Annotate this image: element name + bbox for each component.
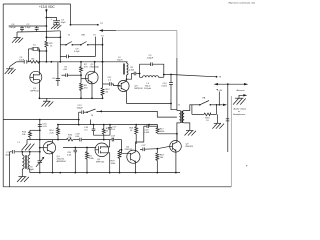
- svg-text:.47µF: .47µF: [19, 59, 25, 61]
- wire vertical switch feed: [59, 31, 61, 62]
- stub bias row: [90, 120, 92, 125]
- transistor Q2: [81, 62, 99, 99]
- wire Q3 source down to step wire: [127, 104, 177, 110]
- wire antenna feed line with left arrowhead: [99, 29, 177, 110]
- capacitor C6 electrolytic: [52, 62, 60, 86]
- wire sub bus: [94, 135, 111, 139]
- svg-text:+13.8 VDC: +13.8 VDC: [39, 5, 55, 9]
- capacitor C3 electrolytic: [51, 18, 67, 25]
- resistor R17: [86, 148, 95, 173]
- wire tank feed: [126, 74, 134, 80]
- node +13.8 VDC supply label: [39, 5, 55, 9]
- node +9V stub: [216, 89, 223, 105]
- wire supply drop with arrowhead: [45, 9, 47, 38]
- wire bypass caps rail: [9, 25, 47, 27]
- switch S1 PA row: [190, 96, 223, 105]
- page header url text: [229, 2, 257, 5]
- svg-text:.047µF: .047µF: [9, 27, 17, 29]
- svg-text:40pF: 40pF: [5, 154, 11, 156]
- resistor R12: [101, 84, 110, 98]
- capacitor C5: [19, 57, 27, 64]
- capacitor C14: [162, 75, 174, 105]
- svg-text:0.001: 0.001: [129, 70, 135, 72]
- audio output text: [233, 108, 247, 116]
- wire Q3 gate feed: [112, 84, 121, 86]
- wire feedback box top with switches: [60, 44, 95, 46]
- capacitor C21 inline on rail: [110, 135, 122, 141]
- svg-text:3.3µF: 3.3µF: [25, 27, 31, 29]
- wire Q6 collector node: [158, 133, 178, 135]
- node B+ takeoff dot: [70, 24, 72, 26]
- antenna double arrow: [214, 83, 249, 92]
- wire crystal right leg: [39, 49, 41, 62]
- wire antenna drop left: [9, 152, 11, 187]
- bias row wire: [57, 124, 158, 126]
- border frame top-box right side: [70, 4, 72, 25]
- svg-text:100pF: 100pF: [77, 108, 84, 110]
- svg-text:2N2222: 2N2222: [125, 149, 133, 151]
- node +9V joins S1 wire: [216, 104, 220, 106]
- resistor R8: [80, 79, 89, 99]
- wire crystal left leg: [27, 49, 29, 62]
- wire Q2 base feed: [62, 74, 82, 76]
- wire coupling down to Q5b base: [121, 140, 127, 154]
- capacitor C18: [144, 124, 158, 133]
- transformer T1: [177, 105, 190, 143]
- wire Q5b collector loop: [136, 126, 144, 150]
- headphone output arrow: [239, 94, 247, 99]
- wire right bus: [227, 83, 229, 152]
- resistor R6: [30, 58, 39, 63]
- svg-text:18.5µH: 18.5µH: [144, 88, 152, 90]
- transistor Q6 PA: [170, 134, 194, 173]
- capacitor C7: [63, 67, 68, 78]
- svg-text:10µF: 10µF: [61, 22, 67, 24]
- svg-text:A2N3904: A2N3904: [57, 160, 67, 163]
- ground below T1: [5, 69, 16, 74]
- wire caps bottom bus: [17, 31, 60, 38]
- transistor Q1: [30, 62, 42, 93]
- svg-text:Headphones: Headphones: [233, 114, 246, 116]
- transistor Q5 mosfet: [95, 140, 110, 173]
- svg-text:MPF102: MPF102: [135, 88, 144, 90]
- wire antenna input row: [10, 151, 41, 153]
- wire Q5 gate feed: [63, 147, 96, 149]
- wire oscillator rail: [16, 61, 127, 63]
- svg-text:MPF102: MPF102: [96, 161, 105, 163]
- ground below T1 secondary: [185, 131, 197, 136]
- ground below R20 branch: [212, 114, 224, 128]
- ground bus mid: [39, 97, 104, 99]
- capacitor C4: [9, 24, 24, 32]
- arrow S1 to bus: [223, 104, 227, 106]
- svg-text:My hams schematic site: My hams schematic site: [229, 2, 257, 5]
- resistor R7: [80, 62, 89, 79]
- resistor R15: [102, 125, 110, 136]
- inductor L2 tank bottom: [140, 76, 164, 91]
- node junction supply to R9: [46, 36, 48, 38]
- wire to T5 node: [171, 75, 222, 79]
- resistor R20 parallel branch: [192, 105, 217, 122]
- ground stem below bus: [42, 98, 54, 106]
- switch CR1: [80, 35, 89, 46]
- capacitor C11 tank top: [140, 55, 164, 78]
- wire B+ feed: [71, 23, 104, 25]
- capacitor C10: [103, 77, 113, 86]
- capacitor C17: [84, 125, 95, 136]
- capacitor C2: [25, 24, 39, 31]
- coil L3 vertical: [117, 57, 128, 78]
- wire audio drive row: [140, 145, 170, 151]
- ground top right: [233, 98, 246, 104]
- wire tank to C14 node: [164, 74, 172, 76]
- svg-text:MPF102: MPF102: [31, 91, 40, 93]
- resistor R14: [50, 125, 60, 140]
- speck right: [246, 165, 247, 166]
- capacitor C15 on vertical: [38, 123, 48, 128]
- svg-text:0.1µF: 0.1µF: [74, 51, 80, 53]
- svg-text:Audio Output: Audio Output: [234, 108, 247, 111]
- ground bus bottom: [30, 172, 180, 174]
- wire to C3: [46, 18, 56, 21]
- switch T2: [65, 35, 73, 46]
- border frame top: [3, 3, 70, 5]
- node junction R9 bottom: [46, 50, 48, 52]
- resistor R21 rf gain: [130, 125, 138, 144]
- resistor R9: [45, 37, 53, 51]
- resistor R16 inline: [67, 134, 73, 141]
- node junction supply to C3: [46, 17, 48, 19]
- svg-text:Antenna: Antenna: [237, 89, 246, 92]
- ground below C4 C2: [12, 38, 23, 43]
- crystal X1: [28, 45, 39, 51]
- node junction supply to C4 C2: [46, 25, 48, 27]
- border frame left: [2, 4, 4, 187]
- switch T1 to ground: [10, 62, 17, 70]
- resistor R19: [111, 150, 122, 173]
- svg-text:2N2222A: 2N2222A: [90, 66, 100, 69]
- resistor R22: [156, 125, 165, 134]
- wire Q2 output node: [102, 45, 104, 84]
- resistor R13: [22, 129, 41, 139]
- svg-text:3-30pF: 3-30pF: [27, 169, 35, 171]
- border frame right: [230, 96, 232, 187]
- svg-text:0.001: 0.001: [162, 86, 168, 88]
- switch T4 row: [77, 105, 96, 117]
- wire mid left feedback: [3, 119, 79, 121]
- capacitor C1 inline: [5, 150, 14, 156]
- capacitor C18b: [108, 125, 117, 136]
- ground below T2: [17, 177, 29, 182]
- ground below C3: [51, 25, 61, 29]
- variable capacitor C16v: [27, 157, 44, 171]
- svg-text:CR1: CR1: [81, 35, 86, 37]
- svg-text:0.001: 0.001: [144, 132, 150, 134]
- svg-text:2N3053: 2N3053: [185, 146, 193, 148]
- label C9 inside box: [74, 48, 80, 53]
- rail mid low: [27, 139, 67, 141]
- transistor Q5b audio: [125, 147, 141, 173]
- border frame bottom: [3, 186, 231, 188]
- wire T4 cap drop: [78, 112, 80, 124]
- headphone jack marks on bus: [226, 119, 230, 121]
- transistor Q3: [118, 78, 144, 104]
- capacitor C20: [67, 148, 77, 173]
- wire R9 to crystal node: [39, 51, 47, 63]
- transformer T2: [22, 152, 30, 177]
- node T3 stub: [93, 35, 104, 46]
- wire to T-switch column: [46, 36, 60, 38]
- wire long vertical left: [39, 120, 41, 173]
- capacitor C19 inline: [73, 133, 110, 141]
- node dots on rail: [39, 61, 104, 63]
- wire Q1 source down to ground bus: [38, 83, 40, 98]
- ground mid low rail: [18, 140, 35, 151]
- transistor Q4: [43, 140, 66, 173]
- wire T4 output step: [97, 110, 177, 117]
- capacitor C8 coupling: [129, 67, 165, 75]
- resistor R18: [156, 149, 165, 173]
- svg-text:18µH: 18µH: [117, 59, 123, 61]
- svg-text:220pF: 220pF: [147, 58, 154, 60]
- wire feedback box bottom with capacitor: [60, 45, 95, 58]
- wire Q4 base from vertical: [39, 147, 43, 149]
